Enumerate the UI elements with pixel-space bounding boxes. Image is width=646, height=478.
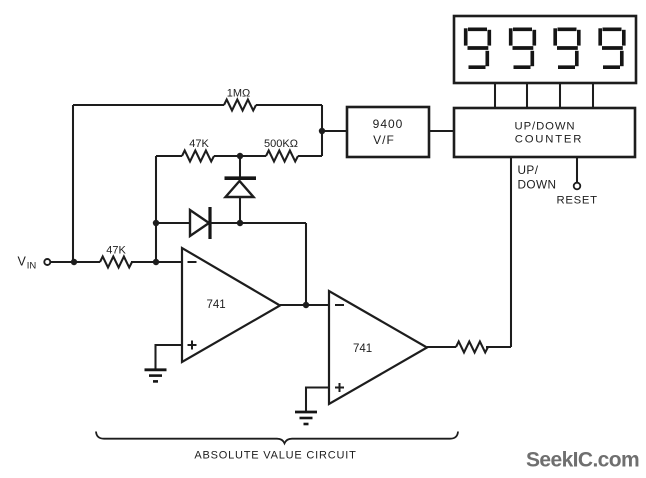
wire second feedback y156: [156, 155, 322, 157]
wire U1 output: [280, 304, 329, 306]
wire display to counter 3: [559, 84, 561, 108]
wire diode line left: [156, 222, 190, 224]
svg-text:RESET: RESET: [557, 195, 598, 207]
svg-text:47K: 47K: [189, 138, 209, 150]
resistor R1 1M: [224, 100, 256, 111]
wire left vertical x73: [72, 105, 74, 262]
svg-text:V: V: [18, 255, 27, 269]
ground U2: [295, 412, 317, 424]
digit 9 (thousands): [466, 28, 490, 67]
node at V/F input: [319, 128, 325, 134]
reset terminal: [574, 183, 581, 190]
display box DS1: [454, 16, 636, 83]
label VIN: [18, 255, 37, 272]
svg-text:UP/DOWN: UP/DOWN: [515, 121, 576, 133]
wire vertical x322: [321, 105, 323, 156]
wire junction to 9400: [322, 130, 347, 132]
svg-text:741: 741: [207, 299, 226, 311]
svg-text:SeekIC.com: SeekIC.com: [526, 449, 639, 472]
ground U1: [145, 370, 167, 382]
op-amp U2 741: [329, 291, 427, 404]
input terminal: [44, 259, 50, 265]
wire reset stub: [576, 157, 578, 183]
resistor R5 output: [456, 342, 488, 353]
svg-text:500KΩ: 500KΩ: [264, 138, 298, 150]
svg-text:ABSOLUTE VALUE CIRCUIT: ABSOLUTE VALUE CIRCUIT: [194, 450, 356, 462]
wire up to counter x511: [510, 157, 512, 347]
digit 9 (ones): [600, 28, 624, 67]
wire U1 plus input: [156, 345, 183, 369]
node input x156: [153, 259, 159, 265]
wire input: [51, 261, 182, 263]
wire feedback down x306: [305, 223, 307, 305]
label UP/DOWN: [518, 163, 557, 192]
svg-text:UP/: UP/: [518, 163, 539, 177]
digit 9 (hundreds): [511, 28, 535, 67]
wire display to counter 2: [526, 84, 528, 108]
digit 9 (tens): [555, 28, 579, 67]
svg-text:IN: IN: [27, 261, 37, 272]
wire U2 output: [427, 346, 511, 348]
diode D1: [190, 207, 210, 239]
brace absolute value circuit: [96, 432, 458, 444]
wire zener top: [239, 156, 241, 178]
svg-text:47K: 47K: [106, 245, 126, 257]
node at R2 R3 junction: [237, 153, 243, 159]
zener diode D2: [225, 178, 257, 197]
svg-text:741: 741: [353, 343, 372, 355]
resistor R2 47K: [182, 151, 214, 162]
resistor R4 47K: [100, 257, 132, 268]
op-amp U1 741: [182, 248, 280, 362]
svg-text:COUNTER: COUNTER: [515, 134, 583, 146]
node diode line left: [153, 220, 159, 226]
wire display to counter 4: [592, 84, 594, 108]
resistor R3 500K: [266, 151, 298, 162]
wire top feedback y105: [73, 104, 322, 106]
node input x74: [71, 259, 77, 265]
wire left vertical x156: [155, 156, 157, 262]
V/F converter U4 9400: [347, 107, 429, 157]
node U1 output: [303, 302, 309, 308]
wire zener bottom: [239, 197, 241, 223]
up/down counter U3: [454, 108, 635, 157]
node zener diode junction: [237, 220, 243, 226]
wire diode line right: [210, 222, 306, 224]
svg-text:V/F: V/F: [373, 133, 395, 147]
wire U2 plus input: [306, 388, 329, 412]
wire 9400 to counter: [429, 130, 454, 132]
wire display to counter 1: [494, 84, 496, 108]
svg-text:9400: 9400: [373, 117, 404, 131]
svg-text:DOWN: DOWN: [518, 178, 557, 192]
svg-text:1MΩ: 1MΩ: [227, 88, 251, 100]
